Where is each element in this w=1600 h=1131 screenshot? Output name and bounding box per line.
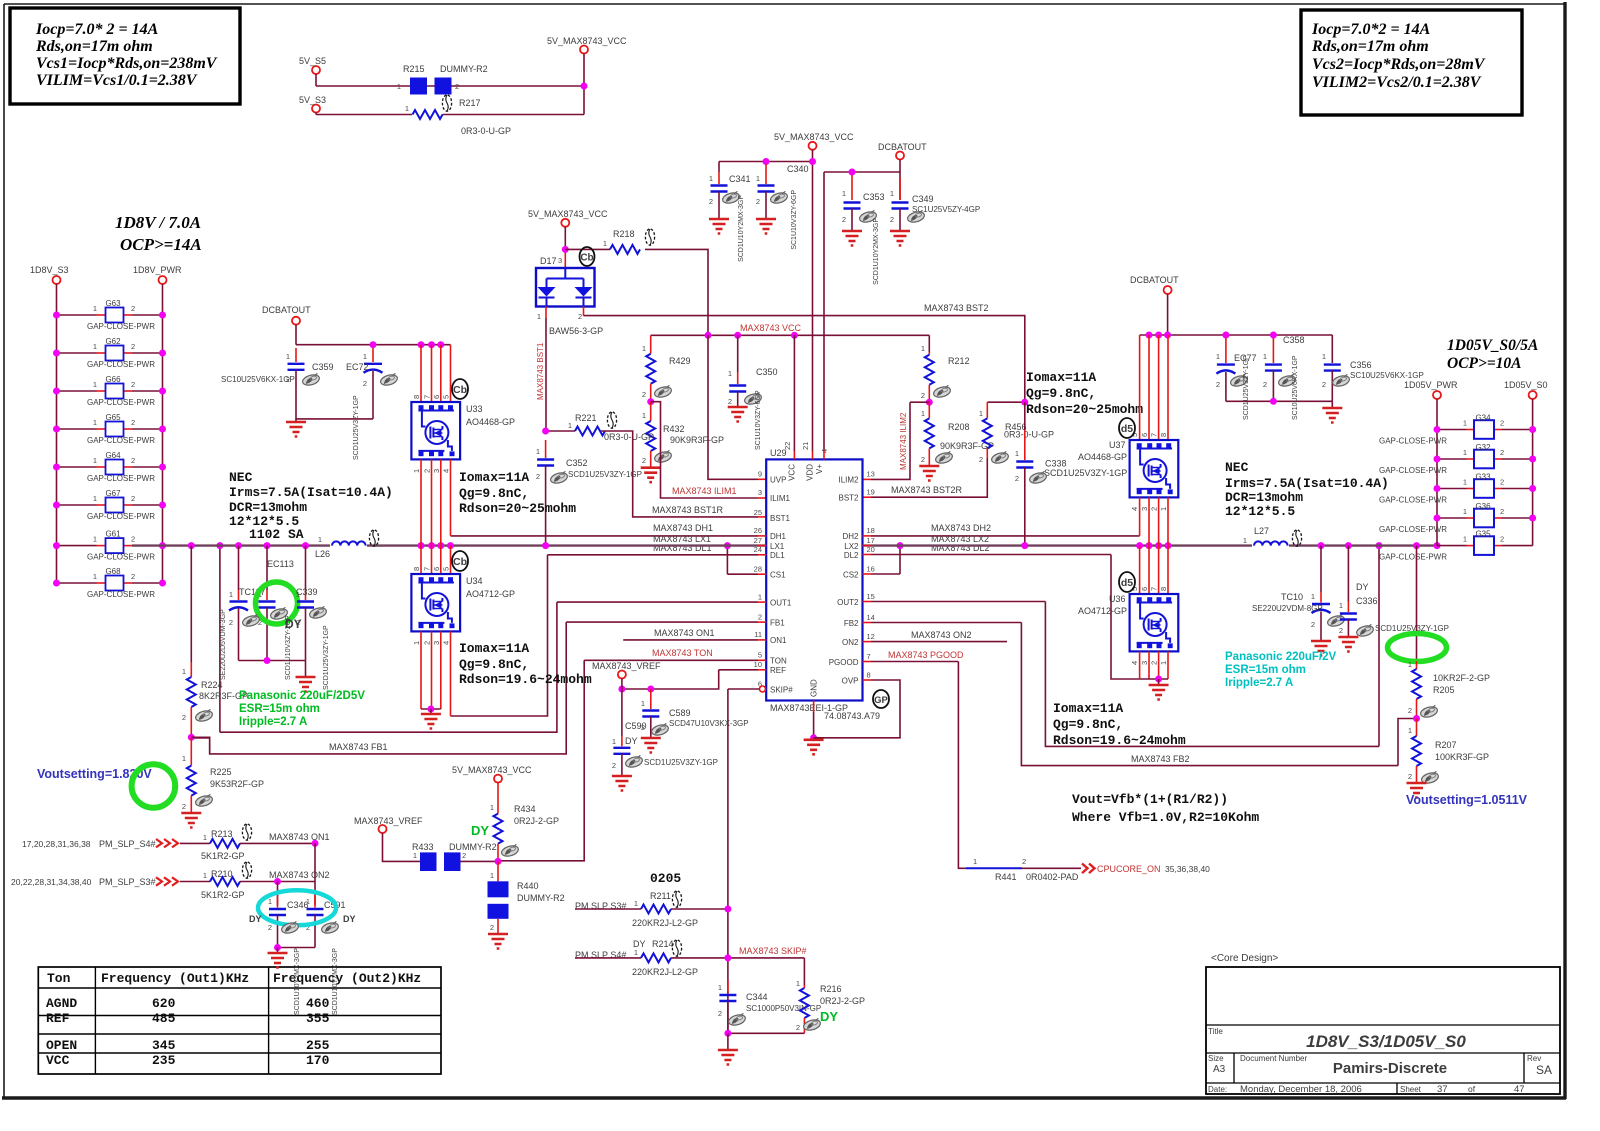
svg-text:1: 1	[1159, 507, 1168, 511]
svg-text:15: 15	[867, 592, 875, 601]
capacitor EC72	[346, 348, 383, 419]
svg-text:REF: REF	[46, 1011, 70, 1026]
ground C336	[1338, 637, 1358, 652]
resistor R433	[412, 842, 437, 871]
svg-text:G63: G63	[105, 299, 121, 308]
resistor R210	[201, 869, 245, 900]
svg-text:74.08743.A79: 74.08743.A79	[824, 711, 880, 721]
svg-text:14: 14	[867, 613, 875, 622]
svg-text:DY: DY	[343, 914, 356, 924]
capacitor C336	[1339, 546, 1449, 637]
svg-text:2: 2	[131, 535, 135, 544]
ground C350	[728, 407, 748, 422]
svg-text:10: 10	[754, 660, 762, 669]
svg-text:GAP-CLOSE-PWR: GAP-CLOSE-PWR	[1379, 466, 1447, 475]
gap G36	[1379, 502, 1536, 534]
label MAX8743 BST1 rotated	[536, 342, 545, 400]
svg-text:Title: Title	[1208, 1027, 1223, 1036]
svg-text:12: 12	[867, 632, 875, 641]
resistor R208	[921, 402, 994, 466]
svg-text:BAW56-3-GP: BAW56-3-GP	[549, 326, 603, 336]
svg-text:0R2J-2-GP: 0R2J-2-GP	[820, 996, 865, 1006]
svg-text:8: 8	[412, 395, 421, 399]
svg-text:CS1: CS1	[770, 571, 786, 580]
capacitor C346	[268, 895, 309, 948]
ground U29	[804, 740, 824, 755]
svg-text:8: 8	[1159, 587, 1168, 591]
svg-text:Date:: Date:	[1208, 1085, 1227, 1094]
svg-text:9K53R2F-GP: 9K53R2F-GP	[210, 779, 264, 789]
junction dot R212 R208	[926, 399, 933, 406]
ground R208	[919, 466, 939, 481]
svg-text:2: 2	[131, 304, 135, 313]
svg-text:DCBATOUT: DCBATOUT	[262, 305, 311, 315]
svg-text:GAP-CLOSE-PWR: GAP-CLOSE-PWR	[87, 436, 155, 445]
svg-text:Document Number: Document Number	[1240, 1054, 1307, 1063]
resistor R225	[182, 737, 264, 813]
label MAX8743 BST2	[924, 303, 989, 313]
svg-text:1: 1	[1311, 592, 1315, 601]
wire R221 BST1 node	[542, 428, 575, 435]
label SE220U2D5VDM-3GP TC117	[220, 609, 227, 680]
resistor R224	[182, 546, 248, 738]
label SCD1U25V3ZY-1GP EC77	[1243, 355, 1250, 420]
svg-text:DUMMY-R2: DUMMY-R2	[449, 842, 497, 852]
svg-text:1: 1	[1339, 601, 1343, 610]
svg-text:235: 235	[152, 1053, 176, 1068]
wire ON2	[863, 630, 1008, 642]
svg-text:DY: DY	[1356, 582, 1369, 592]
wire DCBATOUT right row	[1140, 332, 1333, 339]
svg-text:C590: C590	[625, 721, 647, 731]
svg-text:R215: R215	[403, 64, 425, 74]
variant marker C339	[308, 606, 327, 620]
svg-text:SCD1U25V3ZY-1GP: SCD1U25V3ZY-1GP	[1243, 355, 1250, 420]
svg-text:12*12*5.5: 12*12*5.5	[1225, 504, 1295, 519]
svg-text:GP: GP	[874, 695, 888, 706]
svg-text:11: 11	[754, 630, 762, 639]
variant marker R456	[990, 451, 1009, 465]
capacitor EC77	[1216, 338, 1257, 401]
svg-text:Sheet: Sheet	[1400, 1085, 1422, 1094]
marker GP U29	[873, 690, 889, 708]
junction dot R205 R207	[1413, 715, 1420, 722]
capacitor TC117	[229, 546, 266, 661]
label MAX8743 ILIM1	[672, 486, 737, 496]
svg-text:R213: R213	[211, 829, 233, 839]
note 0205	[650, 871, 681, 886]
svg-text:28: 28	[754, 565, 762, 574]
junction dot 5V rail	[581, 83, 588, 90]
capacitor C356	[1322, 335, 1424, 401]
svg-text:1: 1	[318, 535, 322, 544]
port 5V_S3	[299, 95, 326, 115]
wire CS2	[863, 542, 904, 574]
svg-text:C353: C353	[863, 192, 885, 202]
wire FB2	[863, 623, 1417, 766]
svg-text:47: 47	[1514, 1084, 1525, 1095]
svg-text:5V_MAX8743_VCC: 5V_MAX8743_VCC	[528, 209, 608, 219]
port DCBATOUT right	[1130, 275, 1179, 335]
svg-text:NEC: NEC	[229, 470, 253, 485]
svg-text:90K9R3F-GP: 90K9R3F-GP	[670, 435, 724, 445]
svg-text:G36: G36	[1475, 502, 1491, 511]
svg-text:0R3-0-U-GP: 0R3-0-U-GP	[1004, 430, 1054, 440]
port 1D05V_PWR	[1404, 380, 1458, 546]
svg-text:TON: TON	[770, 657, 787, 666]
svg-text:LX2: LX2	[844, 542, 859, 551]
svg-text:2: 2	[423, 469, 432, 473]
svg-text:1: 1	[286, 352, 290, 361]
variant marker C350	[743, 392, 762, 406]
svg-text:BST2: BST2	[838, 494, 859, 503]
pin stub V+ 4	[823, 451, 825, 459]
svg-text:NEC: NEC	[1225, 460, 1249, 475]
ground U34	[421, 709, 441, 729]
svg-text:620: 620	[152, 996, 176, 1011]
svg-text:5V_S3: 5V_S3	[299, 95, 326, 105]
svg-text:G34: G34	[1475, 414, 1491, 423]
variant marker C353	[858, 210, 877, 224]
svg-text:6: 6	[1140, 433, 1149, 437]
svg-text:2: 2	[536, 472, 540, 481]
svg-text:1: 1	[568, 421, 572, 430]
svg-text:d5: d5	[1121, 423, 1133, 435]
resistor R217	[405, 98, 511, 136]
svg-text:7: 7	[423, 567, 432, 571]
svg-text:L27: L27	[1254, 526, 1269, 536]
variant marker L27	[1292, 530, 1301, 546]
svg-text:R216: R216	[820, 984, 842, 994]
svg-text:4: 4	[442, 469, 451, 473]
svg-text:3: 3	[758, 488, 762, 497]
svg-text:2: 2	[728, 397, 732, 406]
svg-text:Iomax=11A: Iomax=11A	[1026, 370, 1096, 385]
svg-text:ESR=15m ohm: ESR=15m ohm	[1225, 664, 1306, 676]
resistor DUMMY-R2 mid	[444, 842, 498, 871]
svg-text:C349: C349	[912, 194, 934, 204]
variant marker R211	[672, 891, 681, 907]
note Iomax U37	[1026, 370, 1143, 417]
svg-text:4: 4	[442, 641, 451, 645]
svg-text:25: 25	[754, 508, 762, 517]
svg-text:0R3-0-U-GP: 0R3-0-U-GP	[604, 432, 654, 442]
svg-text:2: 2	[131, 494, 135, 503]
annotation Voutsetting 1.0511V	[1406, 793, 1528, 807]
svg-text:1D05V_S0/5A: 1D05V_S0/5A	[1447, 337, 1538, 354]
svg-text:1: 1	[603, 239, 607, 248]
svg-text:1: 1	[182, 667, 186, 676]
wire TON	[498, 648, 766, 861]
svg-text:1: 1	[203, 871, 207, 880]
svg-text:R440: R440	[517, 881, 539, 891]
transistor U33	[411, 345, 515, 546]
wire TC117 C339 bottom	[239, 657, 306, 664]
svg-text:Qg=9.8nC,: Qg=9.8nC,	[1026, 386, 1096, 401]
svg-text:2: 2	[578, 312, 582, 321]
resistor R441	[966, 857, 1081, 882]
variant marker R432	[653, 450, 672, 464]
svg-text:C352: C352	[566, 458, 588, 468]
ground C339	[296, 661, 316, 692]
transistor U34	[411, 546, 515, 716]
ground C346	[268, 948, 288, 968]
marker d5 U36	[1119, 572, 1135, 592]
label SCD1U10Y2MX-3GP C591	[332, 948, 339, 1015]
variant marker R213	[242, 824, 251, 840]
svg-text:1: 1	[890, 189, 894, 198]
variant marker C346	[280, 921, 299, 935]
svg-text:MAX8743 ON1: MAX8743 ON1	[269, 832, 330, 842]
capacitor C591	[306, 895, 346, 948]
svg-text:SCD1U25V3ZY-1GP: SCD1U25V3ZY-1GP	[568, 470, 642, 479]
ground C349	[890, 231, 910, 246]
svg-text:2: 2	[229, 618, 233, 627]
svg-text:Cb: Cb	[453, 556, 467, 568]
svg-text:1D05V_S0: 1D05V_S0	[1504, 380, 1548, 390]
wire 5V_S3 row	[316, 114, 584, 116]
svg-text:460: 460	[306, 996, 330, 1011]
svg-text:255: 255	[306, 1038, 330, 1053]
svg-text:2: 2	[1408, 772, 1412, 781]
svg-text:Pamirs-Discrete: Pamirs-Discrete	[1333, 1060, 1447, 1077]
svg-text:26: 26	[754, 526, 762, 535]
svg-text:5V_MAX8743_VCC: 5V_MAX8743_VCC	[774, 132, 854, 142]
variant marker R216	[802, 1018, 821, 1032]
svg-text:R432: R432	[663, 424, 685, 434]
svg-text:ESR=15m ohm: ESR=15m ohm	[239, 703, 320, 715]
capacitor C358	[1263, 335, 1305, 401]
annotation cyan ellipse	[249, 890, 356, 925]
svg-text:Vout=Vfb*(1+(R1/R2)): Vout=Vfb*(1+(R1/R2))	[1072, 792, 1228, 807]
svg-text:MAX8743 BST1: MAX8743 BST1	[536, 342, 545, 400]
variant marker R218	[645, 229, 654, 245]
capacitor C339	[296, 546, 318, 661]
svg-text:C350: C350	[756, 367, 778, 377]
svg-text:VILIM=Vcs1/0.1=2.38V: VILIM=Vcs1/0.1=2.38V	[36, 72, 198, 89]
svg-text:R218: R218	[613, 229, 635, 239]
variant marker EC77	[1229, 374, 1248, 388]
svg-text:2: 2	[642, 456, 646, 465]
wire UVP feed	[708, 335, 766, 479]
svg-text:13: 13	[867, 469, 875, 478]
svg-text:MAX8743 TON: MAX8743 TON	[652, 648, 713, 658]
svg-text:1: 1	[1159, 661, 1168, 665]
resistor R221	[568, 413, 654, 442]
svg-text:Qg=9.8nC,: Qg=9.8nC,	[459, 486, 529, 501]
svg-text:2: 2	[1311, 620, 1315, 629]
svg-text:U36: U36	[1109, 594, 1126, 604]
annotation 1D8V	[115, 213, 202, 254]
wire MAX8743 VCC row	[651, 323, 930, 339]
label SC1U10V3ZY-6GP C340	[791, 190, 798, 250]
svg-text:SCD1U25V3ZY-1GP: SCD1U25V3ZY-1GP	[1044, 468, 1127, 478]
annotation green ellipse right	[1388, 634, 1447, 662]
wire R205 branch	[1416, 546, 1418, 661]
svg-text:2: 2	[796, 1023, 800, 1032]
svg-text:d5: d5	[1121, 577, 1133, 589]
svg-text:Voutsetting=1.0511V: Voutsetting=1.0511V	[1406, 793, 1528, 807]
svg-text:SCD1U10V3ZY-2GP: SCD1U10V3ZY-2GP	[285, 615, 292, 680]
svg-text:1: 1	[1463, 419, 1467, 428]
svg-text:0R2J-2-GP: 0R2J-2-GP	[514, 816, 559, 826]
svg-text:1: 1	[93, 342, 97, 351]
variant marker TC117	[241, 614, 260, 628]
svg-text:1: 1	[93, 304, 97, 313]
svg-text:SCD47U10V3KX-3GP: SCD47U10V3KX-3GP	[669, 719, 749, 728]
port DCBATOUT left	[262, 305, 311, 345]
svg-text:2: 2	[756, 197, 760, 206]
node PM_SLP_S4 row	[22, 839, 210, 849]
port 5V_S5	[299, 56, 326, 86]
svg-text:2: 2	[423, 641, 432, 645]
svg-text:7: 7	[1150, 433, 1159, 437]
svg-text:2: 2	[842, 215, 846, 224]
resistor R440 DUMMY-R2	[488, 861, 565, 934]
svg-text:GAP-CLOSE-PWR: GAP-CLOSE-PWR	[1379, 553, 1447, 562]
variant marker C356	[1331, 374, 1350, 388]
wire V+ feed	[823, 172, 825, 451]
svg-text:3: 3	[1140, 507, 1149, 511]
gap G62	[53, 337, 166, 369]
svg-text:18: 18	[867, 526, 875, 535]
node PM_SLP_S3 row	[11, 877, 210, 887]
ground C590	[612, 776, 632, 791]
variant marker R217	[442, 95, 451, 111]
svg-text:GAP-CLOSE-PWR: GAP-CLOSE-PWR	[87, 360, 155, 369]
svg-text:2: 2	[131, 456, 135, 465]
svg-text:AO4468-GP: AO4468-GP	[1078, 452, 1127, 462]
svg-text:SA: SA	[1536, 1063, 1552, 1077]
svg-text:2: 2	[1263, 380, 1267, 389]
wire PGOOD	[863, 650, 967, 868]
svg-text:5: 5	[758, 651, 762, 660]
svg-text:DCBATOUT: DCBATOUT	[878, 142, 927, 152]
variant marker C344	[727, 1013, 746, 1027]
svg-text:GAP-CLOSE-PWR: GAP-CLOSE-PWR	[87, 398, 155, 407]
svg-text:Where Vfb=1.0V,R2=10Kohm: Where Vfb=1.0V,R2=10Kohm	[1072, 810, 1259, 825]
svg-text:A3: A3	[1213, 1064, 1226, 1075]
wire BST2R	[863, 458, 988, 497]
svg-text:MAX8743 DH1: MAX8743 DH1	[653, 523, 713, 533]
svg-text:PGOOD: PGOOD	[829, 658, 859, 667]
annotation Voutsetting 1.820V	[37, 764, 175, 808]
svg-text:GAP-CLOSE-PWR: GAP-CLOSE-PWR	[87, 322, 155, 331]
svg-text:MAX8743 ILIM1: MAX8743 ILIM1	[672, 486, 737, 496]
svg-text:16: 16	[867, 564, 875, 573]
capacitor C349	[890, 178, 980, 231]
svg-text:5K1R2-GP: 5K1R2-GP	[201, 890, 245, 900]
svg-text:17: 17	[867, 536, 875, 545]
capacitor C341	[709, 162, 751, 220]
svg-text:D17: D17	[540, 256, 557, 266]
svg-text:Rdson=20~25mohm: Rdson=20~25mohm	[1026, 402, 1143, 417]
wire ON1 bottom	[240, 832, 330, 905]
svg-text:Ton: Ton	[47, 971, 71, 986]
capacitor C338b green circled	[258, 546, 276, 661]
svg-text:4: 4	[1130, 661, 1139, 665]
svg-text:GAP-CLOSE-PWR: GAP-CLOSE-PWR	[1379, 437, 1447, 446]
wire FB1 stub	[191, 737, 209, 754]
inductor L27	[1243, 526, 1289, 547]
svg-text:1: 1	[1322, 352, 1326, 361]
label SCD1U25V3ZY-1GP C339	[323, 625, 330, 690]
svg-text:FB2: FB2	[844, 619, 859, 628]
svg-text:R221: R221	[575, 413, 597, 423]
svg-text:OCP>=10A: OCP>=10A	[1447, 355, 1522, 372]
svg-text:BST1: BST1	[770, 514, 791, 523]
svg-text:1: 1	[612, 737, 616, 746]
svg-text:1: 1	[490, 803, 494, 812]
svg-text:Monday, December 18, 2006: Monday, December 18, 2006	[1240, 1084, 1362, 1095]
svg-text:C339: C339	[296, 587, 318, 597]
ground C344	[718, 1050, 738, 1065]
svg-text:R217: R217	[459, 98, 481, 108]
svg-text:2: 2	[1150, 661, 1159, 665]
svg-text:G65: G65	[105, 413, 121, 422]
capacitor C353	[842, 175, 885, 231]
variant marker R205	[1419, 705, 1438, 719]
transistor U36	[1078, 546, 1178, 679]
gap G67	[53, 489, 166, 521]
svg-text:Cb: Cb	[453, 384, 467, 396]
svg-text:DCR=13mohm: DCR=13mohm	[1225, 490, 1303, 505]
wire FB1	[191, 622, 767, 754]
svg-text:DCR=13mohm: DCR=13mohm	[229, 500, 307, 515]
svg-text:2: 2	[455, 82, 459, 91]
capacitor C338	[1015, 402, 1127, 545]
wire C341 top	[719, 158, 816, 165]
svg-text:SC10U25V6KX-1GP: SC10U25V6KX-1GP	[1292, 355, 1299, 420]
svg-text:FB1: FB1	[770, 618, 785, 627]
svg-text:1: 1	[93, 535, 97, 544]
svg-text:20,22,28,31,34,38,40: 20,22,28,31,34,38,40	[11, 877, 92, 887]
svg-text:1: 1	[182, 754, 186, 763]
svg-text:Rds,on=17m ohm: Rds,on=17m ohm	[35, 38, 153, 55]
svg-text:1: 1	[642, 344, 646, 353]
svg-text:ON2: ON2	[842, 638, 859, 647]
svg-text:220KR2J-L2-GP: 220KR2J-L2-GP	[632, 918, 698, 928]
svg-text:2: 2	[979, 455, 983, 464]
svg-text:2: 2	[363, 379, 367, 388]
svg-text:MAX8743 ILIM2: MAX8743 ILIM2	[899, 412, 908, 470]
note Iomax U36	[1053, 701, 1186, 748]
variant marker C340	[769, 191, 788, 205]
svg-text:MAX8743 SKIP#: MAX8743 SKIP#	[739, 946, 807, 956]
annotation green circle DY	[256, 582, 302, 631]
svg-text:Rdson=20~25mohm: Rdson=20~25mohm	[459, 501, 576, 516]
wire SKIP#	[728, 686, 766, 1033]
svg-text:G66: G66	[105, 375, 121, 384]
variant marker R210	[242, 862, 251, 878]
svg-text:21: 21	[801, 442, 810, 450]
svg-text:2: 2	[182, 802, 186, 811]
ground U36	[1149, 679, 1169, 700]
svg-text:5V_MAX8743_VCC: 5V_MAX8743_VCC	[547, 36, 627, 46]
variant marker C352	[549, 471, 568, 485]
resistor R216	[796, 979, 865, 1033]
label SCD1U10Y2MX-3GP C341	[738, 195, 745, 262]
svg-text:2: 2	[490, 923, 494, 932]
svg-text:C359: C359	[312, 362, 334, 372]
label SCD1U25V3ZY-1GP EC72	[353, 395, 360, 460]
svg-text:Iocp=7.0*2 = 14A: Iocp=7.0*2 = 14A	[1311, 21, 1431, 38]
svg-text:C589: C589	[669, 708, 691, 718]
variant marker C338	[1028, 471, 1047, 485]
svg-text:MAX8743 DH2: MAX8743 DH2	[931, 523, 991, 533]
ground R207	[1407, 783, 1427, 798]
svg-text:C358: C358	[1283, 335, 1305, 345]
